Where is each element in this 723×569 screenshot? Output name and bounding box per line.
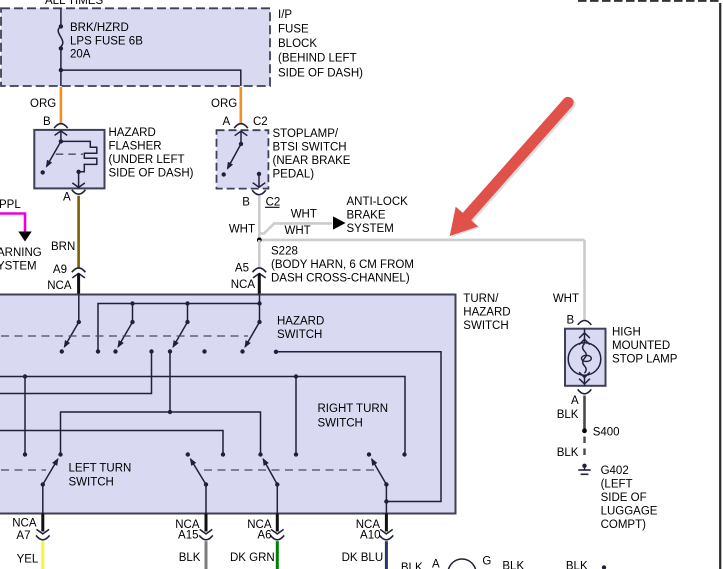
wire ORG 1 bbox=[60, 87, 63, 124]
svg-text:YSTEM: YSTEM bbox=[0, 261, 37, 273]
wire WHT down to A5 bbox=[258, 240, 261, 269]
svg-text:WHT: WHT bbox=[229, 224, 255, 236]
turn/hazard switch box U bbox=[0, 295, 456, 514]
bottom connectors bbox=[12, 514, 393, 569]
wire H2 bbox=[61, 412, 261, 455]
svg-text:SIDE OF DASH): SIDE OF DASH) bbox=[278, 67, 363, 79]
svg-text:(UNDER LEFT: (UNDER LEFT bbox=[109, 154, 185, 166]
splice S400 bbox=[582, 428, 587, 433]
svg-text:NCA: NCA bbox=[231, 279, 256, 291]
svg-text:BLK: BLK bbox=[557, 447, 579, 459]
left turn switch arm 2 bbox=[204, 482, 208, 486]
fuse F6B bbox=[59, 24, 63, 28]
red annotation arrow bbox=[450, 103, 570, 238]
stoplamp/BTSI switch bbox=[217, 116, 351, 208]
svg-text:RIGHT TURN: RIGHT TURN bbox=[318, 403, 389, 415]
wire contact drop to lower bus bbox=[0, 352, 152, 394]
svg-text:TURN/: TURN/ bbox=[463, 293, 499, 305]
svg-text:A: A bbox=[223, 116, 231, 128]
svg-text:HIGH: HIGH bbox=[612, 326, 641, 338]
page edge right bbox=[719, 3, 721, 569]
wire H1 drop left bbox=[24, 377, 26, 455]
wire BRN bbox=[77, 196, 80, 269]
svg-text:BLK: BLK bbox=[502, 561, 524, 569]
svg-text:COMPT): COMPT) bbox=[601, 519, 647, 531]
svg-text:A: A bbox=[63, 192, 71, 204]
svg-text:ORG: ORG bbox=[30, 98, 56, 110]
svg-text:S400: S400 bbox=[593, 426, 620, 438]
svg-text:DK BLU: DK BLU bbox=[342, 552, 384, 564]
hazard linkage dashed bbox=[1, 335, 248, 337]
svg-text:C2: C2 bbox=[266, 196, 281, 208]
svg-text:SWITCH: SWITCH bbox=[318, 417, 363, 429]
svg-text:ANTI-LOCK: ANTI-LOCK bbox=[347, 196, 409, 208]
svg-text:A: A bbox=[432, 559, 440, 569]
page edge dashed top right bbox=[578, 0, 719, 2]
svg-text:STOP LAMP: STOP LAMP bbox=[612, 354, 678, 366]
wire H1 drop mid bbox=[295, 377, 297, 455]
svg-text:A: A bbox=[571, 395, 579, 407]
lamp element bbox=[584, 329, 586, 343]
node lower contacts bbox=[23, 452, 27, 456]
flasher switch arm bbox=[59, 139, 63, 143]
svg-text:BLOCK: BLOCK bbox=[278, 38, 317, 50]
wire H1 feed bbox=[0, 377, 405, 455]
svg-text:WHT: WHT bbox=[553, 293, 579, 305]
wire bbox=[60, 49, 62, 87]
svg-text:(NEAR BRAKE: (NEAR BRAKE bbox=[273, 155, 351, 167]
svg-text:YEL: YEL bbox=[17, 554, 39, 566]
wire DK GRN bbox=[276, 541, 279, 569]
svg-text:SWITCH: SWITCH bbox=[277, 329, 322, 341]
stoplamp switch arm bbox=[239, 142, 243, 146]
wire right turn loop bbox=[276, 352, 441, 502]
wire BLK dashed continuation bbox=[583, 437, 585, 457]
arrow to warning system bbox=[18, 232, 31, 242]
svg-text:(BEHIND LEFT: (BEHIND LEFT bbox=[278, 53, 357, 65]
svg-text:ORG: ORG bbox=[211, 98, 237, 110]
wire hazard bus bbox=[98, 304, 260, 352]
hazard switch arm 3 bbox=[185, 320, 189, 324]
flasher element meander bbox=[61, 141, 97, 171]
PPL warning branch bbox=[0, 199, 42, 273]
right turn switch arm 1 bbox=[275, 482, 279, 486]
high mounted stop lamp chain bbox=[553, 293, 678, 531]
wire WHT vertical to lamp bbox=[583, 240, 586, 321]
svg-text:G: G bbox=[482, 556, 491, 568]
hazard flasher bbox=[34, 116, 193, 295]
svg-text:BRAKE: BRAKE bbox=[347, 210, 386, 222]
svg-text:HAZARD: HAZARD bbox=[277, 316, 324, 328]
svg-text:A15: A15 bbox=[178, 530, 198, 542]
connector A15 bbox=[205, 514, 208, 532]
arrow to anti-lock brake system bbox=[333, 216, 346, 229]
pin A entry arrow bbox=[235, 131, 248, 136]
svg-text:SIDE OF: SIDE OF bbox=[601, 492, 647, 504]
svg-text:BLK: BLK bbox=[179, 552, 201, 564]
node switch output bbox=[257, 172, 261, 176]
svg-text:NCA: NCA bbox=[12, 518, 37, 530]
svg-text:A7: A7 bbox=[16, 530, 30, 542]
wire bbox=[60, 8, 62, 26]
svg-text:B: B bbox=[43, 116, 51, 128]
pin A exit arrow bbox=[78, 172, 80, 187]
bottom partial row and page edges bbox=[401, 1, 720, 569]
svg-text:STOPLAMP/: STOPLAMP/ bbox=[273, 128, 339, 140]
node hazard contacts bbox=[60, 349, 64, 353]
svg-text:B: B bbox=[567, 315, 575, 327]
wire ORG 2 bbox=[240, 87, 243, 124]
wire pivot exits bbox=[42, 485, 44, 514]
pin B entry arrow bbox=[55, 131, 68, 136]
svg-text:WHT: WHT bbox=[285, 225, 311, 237]
svg-text:G402: G402 bbox=[601, 465, 629, 477]
flasher U box bbox=[34, 130, 104, 189]
pin A connector bbox=[578, 389, 592, 393]
left turn linkage dashed bbox=[1, 469, 46, 471]
wire bus drops bbox=[132, 304, 134, 323]
wire YEL bbox=[41, 541, 44, 569]
wire A9 entry bbox=[78, 295, 80, 323]
turn/hazard switch big box bbox=[0, 293, 511, 514]
wire WHT branch to ABS bbox=[259, 223, 332, 233]
wire NCA bbox=[258, 273, 261, 294]
svg-text:BRK/HZRD: BRK/HZRD bbox=[70, 22, 129, 34]
svg-text:HAZARD: HAZARD bbox=[463, 307, 510, 319]
svg-text:HAZARD: HAZARD bbox=[109, 127, 156, 139]
flasher linkage dashed bbox=[56, 153, 83, 155]
svg-text:ARNING: ARNING bbox=[0, 247, 42, 259]
svg-text:BLK: BLK bbox=[557, 409, 579, 421]
wire WHT to stop lamp bbox=[259, 239, 584, 242]
wire WHT from stoplamp bbox=[258, 196, 261, 241]
svg-text:FUSE: FUSE bbox=[278, 24, 309, 36]
WHT net / S228 bbox=[229, 196, 585, 321]
svg-text:A10: A10 bbox=[360, 530, 380, 542]
high mounted stop lamp box E1 bbox=[565, 329, 606, 386]
svg-text:B: B bbox=[242, 196, 250, 208]
connector A10 bbox=[385, 514, 388, 532]
svg-text:SYSTEM: SYSTEM bbox=[347, 223, 394, 235]
svg-text:WHT: WHT bbox=[291, 209, 317, 221]
pin B connector C2 bbox=[252, 190, 266, 194]
pin A connector bbox=[72, 190, 86, 194]
svg-text:BRN: BRN bbox=[51, 241, 75, 253]
svg-text:DK GRN: DK GRN bbox=[230, 552, 275, 564]
wire A5 entry bbox=[259, 295, 261, 323]
svg-text:(LEFT: (LEFT bbox=[601, 479, 633, 491]
svg-text:A6: A6 bbox=[257, 530, 271, 542]
svg-text:PPL: PPL bbox=[0, 199, 21, 211]
wire BLK bbox=[205, 541, 208, 569]
svg-text:SWITCH: SWITCH bbox=[463, 320, 508, 332]
svg-text:NCA: NCA bbox=[47, 280, 72, 292]
svg-text:MOUNTED: MOUNTED bbox=[612, 340, 670, 352]
svg-text:LEFT TURN: LEFT TURN bbox=[69, 463, 132, 475]
wire contact drop bbox=[169, 352, 171, 413]
ground G402 bbox=[582, 464, 586, 468]
pin B exit arrow bbox=[258, 174, 260, 187]
node bus taps bbox=[130, 301, 134, 305]
splice S228 bbox=[257, 238, 262, 243]
svg-text:A9: A9 bbox=[53, 264, 67, 276]
svg-text:LPS FUSE 6B: LPS FUSE 6B bbox=[70, 36, 143, 48]
right turn switch arm 2 bbox=[384, 482, 388, 486]
svg-text:20A: 20A bbox=[70, 49, 91, 61]
wire DK BLU bbox=[385, 541, 388, 569]
stoplamp switch dashed box bbox=[217, 130, 269, 188]
wire H3 bbox=[0, 431, 223, 455]
connector A7 bbox=[41, 514, 44, 532]
svg-text:LUGGAGE: LUGGAGE bbox=[601, 506, 658, 518]
svg-text:(BODY HARN, 6 CM FROM: (BODY HARN, 6 CM FROM bbox=[271, 259, 414, 271]
hazard switch arm 1 bbox=[77, 320, 81, 324]
wire NCA bbox=[77, 273, 80, 294]
svg-text:ALL TIMES: ALL TIMES bbox=[45, 0, 103, 7]
lamp circle partial bbox=[448, 559, 476, 569]
hazard switch arm 2 bbox=[130, 320, 134, 324]
wire BLK bbox=[583, 396, 586, 429]
wire PPL bbox=[0, 214, 25, 232]
left turn switch arm 1 bbox=[41, 482, 45, 486]
connector A6 bbox=[276, 514, 279, 532]
svg-text:DASH CROSS-CHANNEL): DASH CROSS-CHANNEL) bbox=[271, 272, 410, 284]
I/P fuse block box bbox=[1, 0, 363, 124]
hazard switch arm 4 bbox=[257, 320, 261, 324]
svg-text:PEDAL): PEDAL) bbox=[273, 169, 315, 181]
svg-text:S228: S228 bbox=[271, 245, 298, 257]
svg-text:C2: C2 bbox=[253, 116, 268, 128]
svg-text:BLK: BLK bbox=[401, 562, 423, 569]
svg-text:I/P: I/P bbox=[278, 9, 292, 21]
node fuse output junction bbox=[59, 68, 63, 72]
svg-text:BLK: BLK bbox=[566, 561, 588, 569]
svg-text:A5: A5 bbox=[235, 263, 249, 275]
svg-text:FLASHER: FLASHER bbox=[109, 141, 162, 153]
wire bbox=[61, 70, 241, 86]
svg-text:SIDE OF DASH): SIDE OF DASH) bbox=[109, 168, 194, 180]
svg-text:SWITCH: SWITCH bbox=[69, 476, 114, 488]
fuse block dashed box bbox=[1, 8, 270, 86]
svg-text:BTSI SWITCH: BTSI SWITCH bbox=[273, 142, 347, 154]
